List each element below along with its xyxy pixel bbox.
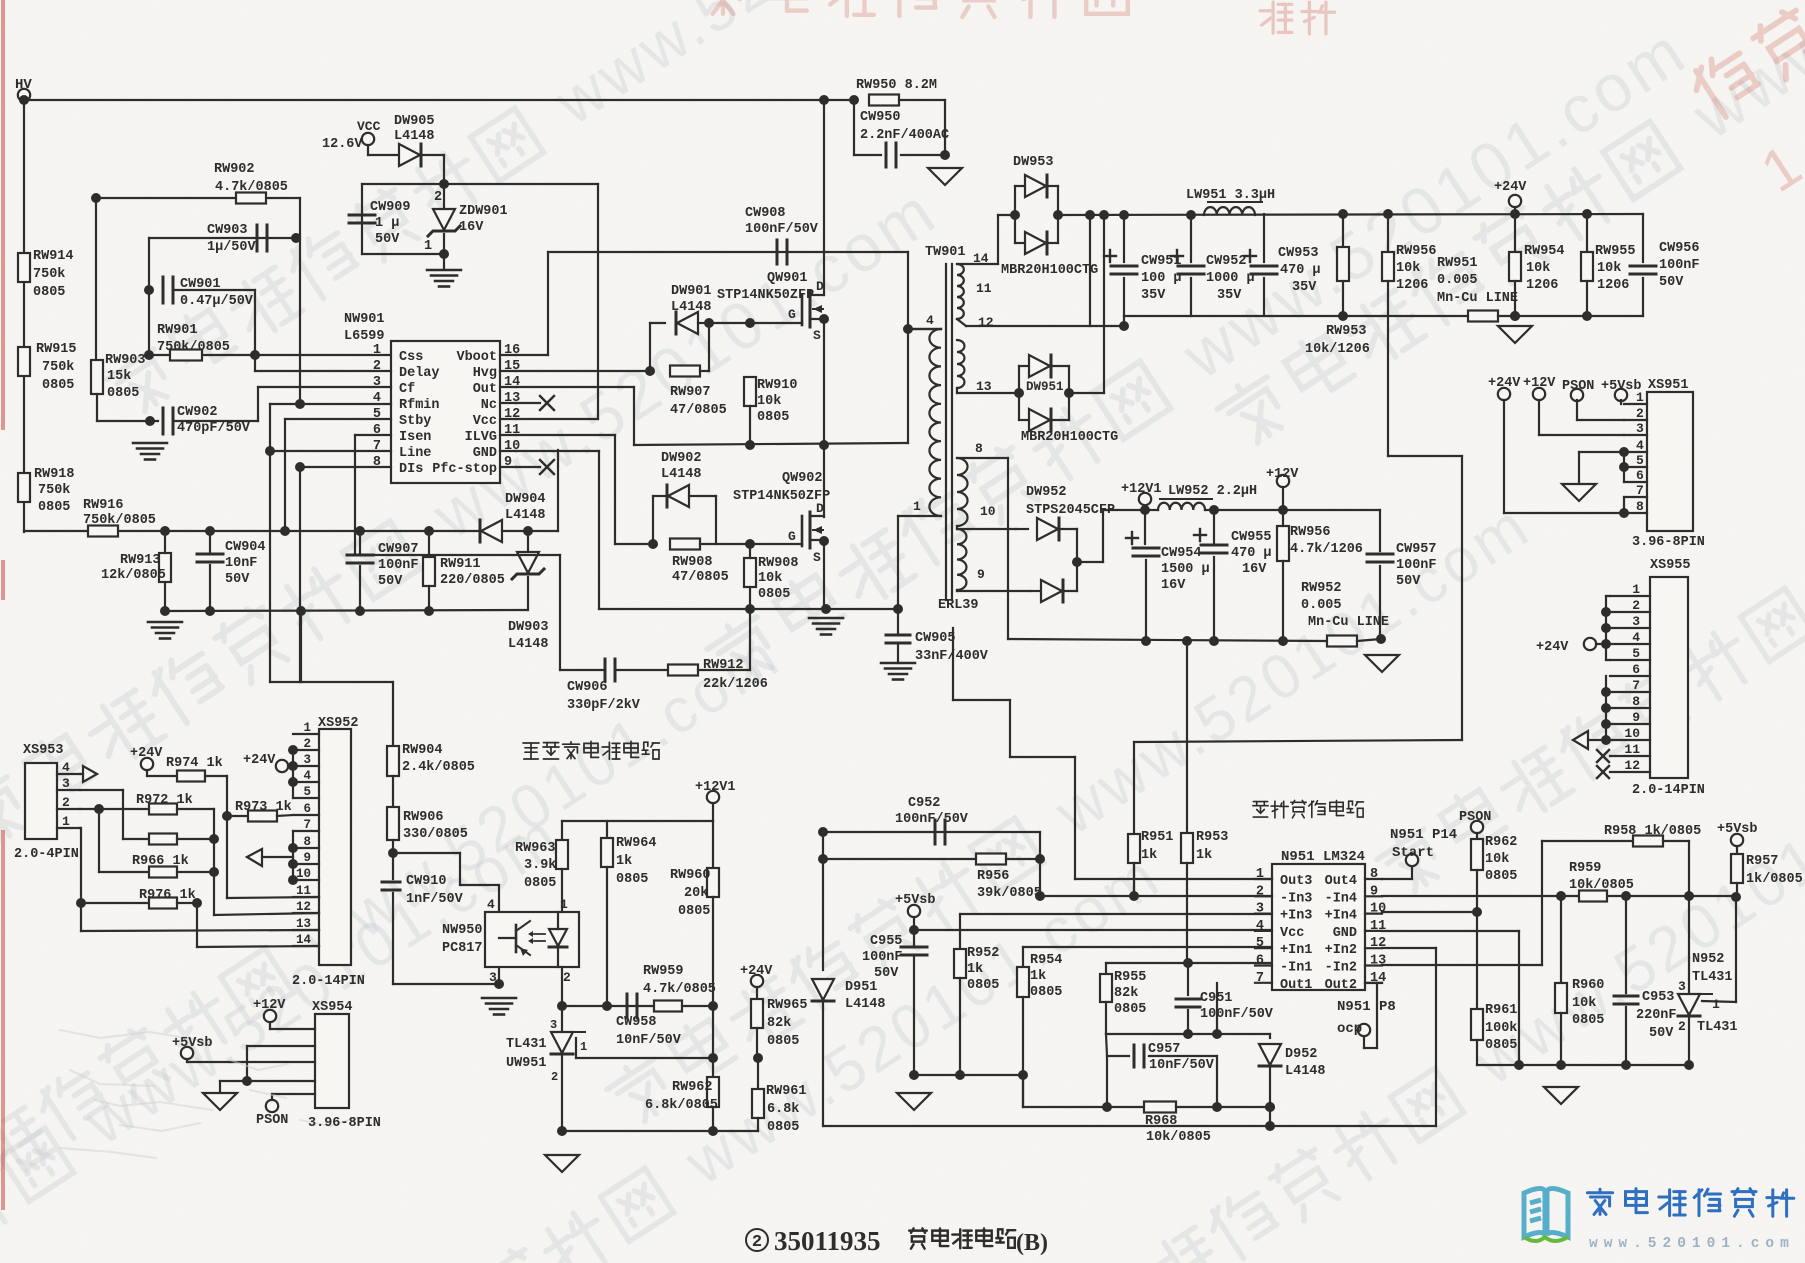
svg-text:16V: 16V: [459, 220, 484, 235]
svg-text:RW918: RW918: [34, 467, 75, 482]
svg-text:9: 9: [303, 851, 311, 865]
svg-text:G: G: [788, 529, 796, 544]
svg-text:47/0805: 47/0805: [670, 403, 727, 418]
svg-text:10nF: 10nF: [225, 556, 257, 571]
svg-text:1206: 1206: [1597, 278, 1629, 293]
svg-text:12.6V: 12.6V: [322, 137, 363, 152]
svg-text:R976 1k: R976 1k: [139, 888, 196, 903]
svg-text:LW951 3.3μH: LW951 3.3μH: [1186, 188, 1275, 203]
svg-text:1: 1: [1632, 582, 1640, 597]
svg-text:RW960: RW960: [670, 868, 711, 883]
svg-text:0805: 0805: [1572, 1013, 1604, 1028]
svg-text:14: 14: [973, 251, 989, 266]
svg-text:-In4: -In4: [1325, 891, 1357, 906]
svg-text:1k/0805: 1k/0805: [1746, 872, 1803, 887]
svg-text:82k: 82k: [767, 1016, 791, 1031]
svg-text:3.96-8PIN: 3.96-8PIN: [308, 1116, 381, 1131]
svg-text:CW905: CW905: [915, 631, 956, 646]
svg-text:STP14NK50ZFP: STP14NK50ZFP: [717, 288, 814, 303]
svg-text:12k/0805: 12k/0805: [101, 568, 166, 583]
svg-text:1: 1: [580, 1040, 587, 1054]
svg-text:MBR20H100CTG: MBR20H100CTG: [1001, 263, 1098, 278]
svg-text:13: 13: [296, 917, 311, 931]
svg-text:(B): (B): [1016, 1230, 1048, 1256]
svg-text:3.96-8PIN: 3.96-8PIN: [1632, 535, 1705, 550]
svg-text:330pF/2kV: 330pF/2kV: [567, 698, 641, 713]
svg-text:7: 7: [1256, 971, 1264, 986]
svg-text:R972 1k: R972 1k: [136, 793, 193, 808]
svg-text:0805: 0805: [767, 1034, 799, 1049]
svg-text:RW912: RW912: [703, 658, 744, 673]
svg-text:35011935: 35011935: [774, 1226, 881, 1256]
svg-text:10: 10: [296, 867, 311, 881]
svg-text:3: 3: [489, 970, 497, 985]
svg-text:15k: 15k: [107, 369, 131, 384]
svg-text:L4148: L4148: [505, 508, 546, 523]
svg-text:6: 6: [1636, 468, 1644, 483]
svg-text:0805: 0805: [33, 285, 65, 300]
svg-text:12: 12: [296, 900, 311, 914]
svg-text:10k: 10k: [1572, 996, 1596, 1011]
svg-text:Out2: Out2: [1325, 978, 1357, 993]
svg-text:RW916: RW916: [83, 498, 124, 513]
svg-text:C955: C955: [870, 934, 902, 949]
svg-text:8: 8: [303, 835, 311, 849]
svg-text:6: 6: [373, 423, 381, 438]
svg-text:+12V1: +12V1: [695, 780, 736, 795]
svg-text:NW950: NW950: [442, 923, 483, 938]
svg-text:Pfc-stop: Pfc-stop: [432, 462, 497, 477]
svg-text:Out1: Out1: [1280, 978, 1312, 993]
svg-text:R956: R956: [977, 869, 1009, 884]
svg-text:Css: Css: [399, 350, 423, 365]
svg-text:D951: D951: [845, 980, 877, 995]
svg-text:100nF/50V: 100nF/50V: [1200, 1007, 1274, 1022]
svg-text:50V: 50V: [378, 574, 403, 589]
svg-text:CW958: CW958: [616, 1015, 657, 1030]
svg-text:3: 3: [1632, 614, 1640, 629]
svg-text:1206: 1206: [1526, 278, 1558, 293]
svg-text:RW906: RW906: [403, 810, 444, 825]
svg-text:R968: R968: [1145, 1114, 1177, 1129]
svg-text:16V: 16V: [1161, 578, 1186, 593]
svg-text:750k: 750k: [42, 360, 74, 375]
svg-text:0805: 0805: [967, 978, 999, 993]
svg-text:0.005: 0.005: [1301, 598, 1342, 613]
svg-text:C951: C951: [1200, 991, 1232, 1006]
svg-text:GND: GND: [473, 446, 497, 461]
svg-text:12: 12: [978, 315, 994, 330]
svg-text:R966 1k: R966 1k: [132, 854, 189, 869]
svg-text:L4148: L4148: [671, 300, 712, 315]
svg-text:QW901: QW901: [767, 271, 808, 286]
svg-text:2: 2: [1636, 406, 1644, 421]
svg-text:C957: C957: [1148, 1042, 1180, 1057]
svg-text:0805: 0805: [758, 587, 790, 602]
svg-text:L4148: L4148: [1285, 1064, 1326, 1079]
svg-text:11: 11: [976, 281, 992, 296]
svg-text:Out3: Out3: [1280, 874, 1312, 889]
svg-text:82k: 82k: [1114, 986, 1138, 1001]
svg-text:11: 11: [1624, 742, 1640, 757]
svg-text:L4148: L4148: [394, 129, 435, 144]
svg-text:100nF: 100nF: [1659, 258, 1700, 273]
svg-text:1: 1: [424, 239, 432, 254]
svg-text:14: 14: [504, 375, 520, 390]
svg-text:2: 2: [1678, 1019, 1686, 1034]
svg-text:RW914: RW914: [33, 249, 74, 264]
svg-text:2.0-14PIN: 2.0-14PIN: [1632, 783, 1705, 798]
svg-text:11: 11: [296, 884, 311, 898]
svg-text:33nF/400V: 33nF/400V: [915, 649, 989, 664]
svg-text:R957: R957: [1746, 854, 1778, 869]
svg-text:100 μ: 100 μ: [1141, 271, 1182, 286]
svg-text:GND: GND: [1333, 926, 1357, 941]
svg-text:2: 2: [551, 1070, 558, 1084]
svg-text:5: 5: [303, 785, 311, 799]
svg-text:XS954: XS954: [312, 1000, 353, 1015]
svg-text:0805: 0805: [38, 500, 70, 515]
svg-text:10: 10: [1624, 726, 1640, 741]
svg-text:10nF/50V: 10nF/50V: [1149, 1058, 1215, 1073]
svg-text:0805: 0805: [1485, 1038, 1517, 1053]
svg-text:Delay: Delay: [399, 366, 440, 381]
svg-text:CW901: CW901: [180, 277, 221, 292]
svg-text:+5Vsb: +5Vsb: [895, 893, 936, 908]
svg-text:1k: 1k: [967, 962, 983, 977]
svg-text:PC817: PC817: [442, 941, 483, 956]
svg-text:220nF: 220nF: [1636, 1008, 1677, 1023]
svg-text:2: 2: [373, 359, 381, 374]
svg-text:1: 1: [1712, 997, 1720, 1012]
svg-text:RW904: RW904: [402, 743, 443, 758]
svg-text:STPS2045CFP: STPS2045CFP: [1026, 503, 1115, 518]
svg-text:0805: 0805: [1030, 985, 1062, 1000]
svg-text:+5Vsb: +5Vsb: [1717, 822, 1758, 837]
svg-text:+24V: +24V: [1494, 180, 1527, 195]
svg-text:330/0805: 330/0805: [403, 827, 468, 842]
svg-text:DW904: DW904: [505, 492, 546, 507]
svg-text:RW951: RW951: [1437, 256, 1478, 271]
svg-text:CW956: CW956: [1659, 241, 1700, 256]
svg-text:Vboot: Vboot: [456, 350, 497, 365]
svg-text:NW901: NW901: [344, 312, 385, 327]
svg-text:20k: 20k: [684, 886, 708, 901]
svg-text:RW903: RW903: [105, 353, 146, 368]
svg-text:+5Vsb: +5Vsb: [1601, 379, 1642, 394]
svg-text:8: 8: [975, 441, 983, 456]
svg-text:4: 4: [373, 391, 381, 406]
svg-text:16V: 16V: [1242, 562, 1267, 577]
svg-text:22k/1206: 22k/1206: [703, 677, 768, 692]
svg-text:470 μ: 470 μ: [1231, 546, 1272, 561]
svg-text:16: 16: [504, 343, 520, 358]
svg-text:Isen: Isen: [399, 430, 431, 445]
svg-text:12: 12: [1370, 936, 1386, 951]
svg-text:8: 8: [1632, 694, 1640, 709]
svg-text:RW911: RW911: [440, 557, 481, 572]
svg-text:1 μ: 1 μ: [375, 216, 399, 231]
svg-text:Vcc: Vcc: [1280, 926, 1304, 941]
svg-text:6: 6: [1632, 662, 1640, 677]
svg-text:CW909: CW909: [370, 200, 411, 215]
svg-text:L6599: L6599: [344, 329, 385, 344]
svg-text:100nF/50V: 100nF/50V: [895, 812, 969, 827]
svg-text:1μ/50V: 1μ/50V: [207, 240, 257, 255]
svg-text:50V: 50V: [1649, 1026, 1674, 1041]
svg-text:1206: 1206: [1396, 278, 1428, 293]
svg-text:Hvg: Hvg: [473, 366, 497, 381]
svg-text:+In3: +In3: [1280, 909, 1312, 924]
svg-text:DW953: DW953: [1013, 155, 1054, 170]
svg-text:XS953: XS953: [23, 743, 64, 758]
svg-text:0805: 0805: [524, 876, 556, 891]
svg-text:0805: 0805: [767, 1120, 799, 1135]
svg-text:-In3: -In3: [1280, 891, 1312, 906]
svg-text:12: 12: [504, 407, 520, 422]
svg-text:RW910: RW910: [757, 378, 798, 393]
svg-text:0805: 0805: [42, 378, 74, 393]
svg-text:10k/1206: 10k/1206: [1305, 342, 1370, 357]
svg-text:+12V: +12V: [1523, 376, 1556, 391]
svg-text:1: 1: [913, 499, 921, 514]
svg-text:0805: 0805: [616, 872, 648, 887]
svg-text:0805: 0805: [107, 386, 139, 401]
svg-text:1k: 1k: [1030, 969, 1046, 984]
svg-text:CW910: CW910: [406, 874, 447, 889]
svg-text:1nF/50V: 1nF/50V: [406, 892, 464, 907]
svg-text:R960: R960: [1572, 978, 1604, 993]
svg-text:7: 7: [373, 439, 381, 454]
svg-text:13: 13: [976, 379, 992, 394]
svg-text:2.0-14PIN: 2.0-14PIN: [292, 974, 365, 989]
svg-text:RW953: RW953: [1326, 324, 1367, 339]
svg-text:ocp: ocp: [1337, 1021, 1362, 1037]
svg-text:39k/0805: 39k/0805: [977, 886, 1042, 901]
svg-text:2: 2: [752, 1233, 762, 1252]
svg-text:www.520101.com: www.520101.com: [1589, 1236, 1795, 1252]
svg-text:Line: Line: [399, 446, 431, 461]
svg-text:+12V: +12V: [253, 998, 286, 1013]
svg-text:RW961: RW961: [766, 1084, 807, 1099]
svg-text:1000 μ: 1000 μ: [1206, 271, 1255, 286]
svg-text:100nF: 100nF: [862, 950, 903, 965]
svg-text:CW907: CW907: [378, 542, 419, 557]
svg-text:1: 1: [560, 897, 568, 912]
svg-text:R953: R953: [1196, 830, 1228, 845]
svg-text:CW952: CW952: [1206, 254, 1247, 269]
svg-text:RW959: RW959: [643, 964, 684, 979]
svg-text:R952: R952: [967, 946, 999, 961]
svg-text:XS952: XS952: [318, 716, 359, 731]
svg-text:4: 4: [1632, 630, 1640, 645]
svg-text:7: 7: [303, 818, 311, 832]
svg-text:VCC: VCC: [357, 119, 381, 134]
svg-text:CW951: CW951: [1141, 254, 1182, 269]
svg-text:R961: R961: [1485, 1003, 1517, 1018]
svg-text:L4148: L4148: [845, 997, 886, 1012]
svg-text:TL431: TL431: [506, 1037, 547, 1052]
svg-text:4.7k/0805: 4.7k/0805: [643, 982, 716, 997]
svg-text:CW903: CW903: [207, 223, 248, 238]
svg-text:PSON: PSON: [256, 1113, 288, 1128]
svg-text:9: 9: [1370, 884, 1378, 899]
svg-text:N951 P8: N951 P8: [1337, 999, 1396, 1015]
svg-text:4.7k/0805: 4.7k/0805: [215, 180, 288, 195]
svg-text:RW901: RW901: [157, 323, 198, 338]
svg-text:11: 11: [504, 423, 520, 438]
svg-text:+24V: +24V: [740, 964, 773, 979]
svg-text:+In2: +In2: [1325, 943, 1357, 958]
svg-text:10: 10: [980, 504, 996, 519]
svg-text:2.0-4PIN: 2.0-4PIN: [14, 847, 79, 862]
svg-text:11: 11: [1370, 919, 1386, 934]
svg-text:+24V: +24V: [1488, 376, 1521, 391]
svg-text:XS951: XS951: [1648, 378, 1689, 393]
svg-text:UW951: UW951: [506, 1056, 547, 1071]
svg-text:RW965: RW965: [767, 998, 808, 1013]
svg-text:6.8k: 6.8k: [767, 1102, 799, 1117]
svg-text:RW908: RW908: [672, 555, 713, 570]
svg-text:9: 9: [977, 567, 985, 582]
svg-text:MBR20H100CTG: MBR20H100CTG: [1021, 430, 1118, 445]
svg-text:10k: 10k: [758, 571, 782, 586]
svg-text:50V: 50V: [874, 966, 899, 981]
svg-text:CW957: CW957: [1396, 542, 1437, 557]
svg-text:9: 9: [504, 455, 512, 470]
svg-text:Mn-Cu LINE: Mn-Cu LINE: [1308, 615, 1389, 630]
svg-text:ZDW901: ZDW901: [459, 204, 508, 219]
svg-text:XS955: XS955: [1650, 558, 1691, 573]
svg-text:50V: 50V: [1659, 275, 1684, 290]
svg-text:ERL39: ERL39: [938, 598, 979, 613]
svg-text:Rfmin: Rfmin: [399, 398, 440, 413]
svg-text:2: 2: [1632, 598, 1640, 613]
svg-text:5: 5: [1632, 646, 1640, 661]
svg-text:4.7k/1206: 4.7k/1206: [1290, 542, 1363, 557]
svg-text:+12V: +12V: [1266, 467, 1299, 482]
svg-text:10k/0805: 10k/0805: [1146, 1130, 1211, 1145]
svg-text:13: 13: [1370, 954, 1386, 969]
svg-text:470 μ: 470 μ: [1280, 263, 1321, 278]
svg-text:RW907: RW907: [670, 385, 711, 400]
svg-text:0805: 0805: [1114, 1002, 1146, 1017]
svg-text:1: 1: [62, 814, 70, 829]
svg-text:Out4: Out4: [1325, 874, 1357, 889]
svg-text:C953: C953: [1642, 990, 1674, 1005]
svg-text:6.8k/0805: 6.8k/0805: [645, 1098, 718, 1113]
svg-text:10nF/50V: 10nF/50V: [616, 1033, 682, 1048]
svg-text:D: D: [816, 501, 824, 516]
svg-text:1k: 1k: [1196, 848, 1212, 863]
svg-text:R974 1k: R974 1k: [166, 756, 223, 771]
svg-text:4: 4: [1636, 438, 1644, 453]
svg-text:5: 5: [1636, 453, 1644, 468]
svg-text:+24V: +24V: [1536, 640, 1569, 655]
svg-text:TL431: TL431: [1697, 1020, 1738, 1035]
svg-text:10k: 10k: [1485, 852, 1509, 867]
svg-text:0.005: 0.005: [1437, 273, 1478, 288]
svg-text:L4148: L4148: [508, 637, 549, 652]
svg-text:R959: R959: [1569, 861, 1601, 876]
svg-text:9: 9: [1632, 710, 1640, 725]
svg-text:5: 5: [1256, 936, 1264, 951]
svg-text:8: 8: [1370, 867, 1378, 882]
svg-text:10k/0805: 10k/0805: [1569, 878, 1634, 893]
svg-text:+12V1: +12V1: [1121, 482, 1162, 497]
svg-text:4: 4: [62, 760, 70, 775]
svg-text:1500 μ: 1500 μ: [1161, 562, 1210, 577]
svg-text:ILVG: ILVG: [465, 430, 497, 445]
svg-text:RW963: RW963: [515, 841, 556, 856]
svg-text:CW904: CW904: [225, 540, 266, 555]
svg-text:L4148: L4148: [661, 467, 702, 482]
svg-text:CW955: CW955: [1231, 530, 1272, 545]
svg-text:RW956: RW956: [1396, 244, 1437, 259]
svg-text:3: 3: [1256, 902, 1264, 917]
svg-text:3: 3: [1636, 421, 1644, 436]
svg-text:CW954: CW954: [1161, 546, 1202, 561]
svg-text:CW953: CW953: [1278, 246, 1319, 261]
svg-text:C952: C952: [908, 796, 940, 811]
svg-text:10k: 10k: [1396, 261, 1420, 276]
svg-text:Out: Out: [473, 382, 497, 397]
svg-text:4: 4: [303, 769, 311, 783]
svg-text:DIs: DIs: [399, 462, 423, 477]
svg-text:3: 3: [373, 375, 381, 390]
svg-text:15: 15: [504, 359, 520, 374]
svg-text:2.4k/0805: 2.4k/0805: [402, 760, 475, 775]
svg-text:1: 1: [303, 721, 311, 735]
svg-text:2.2nF/400AC: 2.2nF/400AC: [860, 128, 949, 143]
svg-text:0805: 0805: [678, 904, 710, 919]
svg-text:-In1: -In1: [1280, 961, 1312, 976]
svg-text:1: 1: [1256, 867, 1264, 882]
svg-text:1k: 1k: [1141, 848, 1157, 863]
svg-text:R954: R954: [1030, 953, 1062, 968]
svg-text:DW901: DW901: [671, 284, 712, 299]
svg-text:-In2: -In2: [1325, 961, 1357, 976]
svg-text:750k: 750k: [33, 267, 65, 282]
svg-text:2: 2: [434, 190, 442, 205]
svg-text:13: 13: [504, 391, 520, 406]
svg-text:RW952: RW952: [1301, 581, 1342, 596]
svg-text:+In1: +In1: [1280, 943, 1312, 958]
svg-text:HV: HV: [15, 77, 32, 93]
svg-text:100nF/50V: 100nF/50V: [745, 222, 819, 237]
svg-text:100k: 100k: [1485, 1021, 1517, 1036]
svg-text:100nF: 100nF: [1396, 558, 1437, 573]
svg-text:Cf: Cf: [399, 382, 415, 397]
svg-text:0805: 0805: [757, 410, 789, 425]
svg-text:DW903: DW903: [508, 620, 549, 635]
svg-text:2: 2: [1256, 884, 1264, 899]
svg-text:10k: 10k: [1526, 261, 1550, 276]
svg-text:0.47μ/50V: 0.47μ/50V: [180, 294, 254, 309]
svg-text:DW905: DW905: [394, 114, 435, 129]
svg-text:470pF/50V: 470pF/50V: [177, 421, 251, 436]
svg-text:QW902: QW902: [782, 471, 823, 486]
svg-text:100nF: 100nF: [378, 558, 419, 573]
svg-text:CW902: CW902: [177, 405, 218, 420]
svg-text:PSON: PSON: [1562, 379, 1594, 394]
svg-text:S: S: [813, 550, 821, 565]
svg-text:LW952 2.2μH: LW952 2.2μH: [1168, 484, 1257, 499]
svg-text:750k/0805: 750k/0805: [83, 513, 156, 528]
svg-text:R955: R955: [1114, 970, 1146, 985]
svg-text:35V: 35V: [1141, 288, 1166, 303]
svg-text:CW908: CW908: [745, 206, 786, 221]
